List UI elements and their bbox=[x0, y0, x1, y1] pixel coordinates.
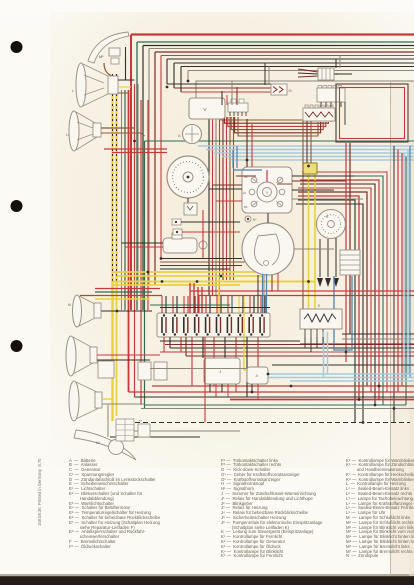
wire right v4 bbox=[405, 157, 407, 406]
wire fuse feed 19 bbox=[260, 296, 262, 313]
wire fuse out 7 bbox=[213, 337, 215, 386]
wire relay drop 5 bbox=[251, 384, 253, 392]
wire mid v brown3 bbox=[310, 121, 312, 163]
wire right corner 2 bbox=[298, 196, 359, 400]
wire cascade v8 bbox=[173, 63, 175, 88]
wire bottom black 1 bbox=[135, 396, 414, 398]
wire coil feed 1 bbox=[122, 242, 164, 244]
junction dot b3 bbox=[393, 407, 396, 410]
page fold line right bbox=[390, 82, 392, 575]
wire right v5 bbox=[345, 143, 347, 362]
headlight L2 bbox=[66, 111, 101, 151]
junction dot 10 bbox=[267, 373, 270, 376]
wire light blue h2 bbox=[206, 149, 414, 151]
wire lblue v heck2 bbox=[327, 332, 329, 374]
headlight L1 bbox=[72, 63, 118, 107]
junction dot 11 bbox=[307, 165, 310, 168]
wire red cluster f4 bbox=[201, 287, 203, 313]
wire fuse out 2 bbox=[169, 337, 171, 348]
fuse 9 bbox=[249, 314, 253, 335]
wire bundle yellow dash 2b bbox=[116, 74, 118, 315]
wire yellow h y3 bbox=[95, 298, 150, 300]
wire headlight1 stub 1 bbox=[118, 79, 135, 81]
wire coil feed 2 bbox=[125, 246, 163, 248]
horn M top bbox=[88, 32, 129, 63]
fuse 3 bbox=[184, 314, 188, 335]
wire gray lamp v bbox=[107, 404, 109, 437]
wire J conn drop 1 bbox=[335, 59, 337, 68]
junction dot 1 bbox=[133, 140, 136, 143]
bottom scan edge band bbox=[0, 576, 414, 585]
junction dot 5 bbox=[220, 275, 223, 278]
wire light blue h4 bbox=[222, 156, 414, 158]
wire mid h1 bbox=[160, 258, 242, 260]
junction dot b6 bbox=[345, 351, 348, 354]
wire harness U1 bbox=[221, 117, 331, 122]
junction dot 9 bbox=[160, 257, 163, 260]
wire top bus 6 bbox=[161, 55, 414, 57]
wire mid v brown1 bbox=[302, 121, 304, 309]
flasher box yellow bbox=[303, 163, 317, 174]
wire dashed ground run bbox=[135, 422, 410, 424]
wire switch drop bbox=[267, 213, 269, 223]
wire mid h3 bbox=[160, 265, 242, 267]
connector J top bbox=[298, 68, 352, 80]
wire switch feed l2 bbox=[209, 188, 242, 190]
box small left bbox=[98, 361, 114, 378]
wire green h y1 bbox=[95, 291, 152, 293]
wire J conn drop 2 bbox=[339, 56, 341, 69]
wire fuse feed 20 bbox=[264, 296, 266, 313]
wire red h y2 bbox=[80, 295, 162, 297]
lamp M mid bbox=[68, 295, 101, 327]
wire inner tier h1 bbox=[167, 83, 271, 85]
fuse 10 bbox=[260, 314, 264, 335]
svg-text:E: E bbox=[318, 304, 320, 308]
svg-text:M⁴: M⁴ bbox=[96, 441, 101, 445]
wire bottom lblue 3 bbox=[290, 380, 414, 382]
lamp rear 2 bbox=[69, 381, 102, 421]
wire light blue h5 bbox=[230, 159, 414, 161]
wire cascade v9 bbox=[180, 67, 182, 93]
horn M connector bbox=[104, 48, 120, 76]
wire switch feed l1 bbox=[212, 184, 242, 186]
junction dot 14 bbox=[187, 80, 190, 83]
svg-text:L: L bbox=[72, 89, 74, 93]
wire fuse out 1 bbox=[163, 337, 165, 352]
junction dot 7 bbox=[307, 280, 310, 283]
wire relay drop 4 bbox=[227, 384, 229, 397]
wire fuse out 10 bbox=[246, 337, 248, 397]
junction dot 12 bbox=[358, 398, 361, 401]
wire cascade v10 bbox=[187, 71, 189, 82]
wire bundle red 4 bbox=[147, 100, 149, 310]
vertical print note bbox=[37, 458, 42, 526]
wire cascade v4 bbox=[148, 49, 150, 285]
wire light blue h1 bbox=[198, 145, 414, 147]
relay J2 bbox=[247, 367, 268, 384]
wire fuse out 11 bbox=[257, 337, 259, 367]
wire top bus 11 bbox=[196, 81, 414, 98]
svg-text:G²: G² bbox=[289, 89, 293, 93]
wire switch dred in bbox=[236, 175, 256, 177]
distributor H bbox=[317, 210, 346, 239]
wire yellow v right2 bbox=[314, 173, 316, 309]
wire headlight brown 1 bbox=[101, 127, 135, 129]
wire cascade v7 bbox=[166, 59, 168, 84]
wire inner tier h4 bbox=[125, 47, 127, 80]
wire relay drop 3 bbox=[221, 384, 223, 392]
generator C bbox=[167, 156, 209, 198]
wire blk h307 bbox=[160, 307, 270, 309]
wire top bus 1 bbox=[131, 33, 414, 35]
wire headlight1 stub 3 bbox=[118, 92, 129, 94]
wire bundle yellow dash 1 bbox=[111, 74, 113, 300]
connector G2 bbox=[271, 84, 292, 95]
legend column 2 bbox=[221, 459, 322, 560]
wire bottom lblue 2 bbox=[267, 377, 414, 379]
fuse 8 bbox=[238, 314, 242, 335]
wire Ebox pin ext1 bbox=[304, 337, 306, 348]
wire cascade v6 bbox=[160, 56, 162, 259]
wire right h2 bbox=[342, 338, 414, 340]
wire top bus 5 bbox=[155, 51, 414, 53]
wire relay drop 1 bbox=[209, 384, 211, 392]
wire bundle red 1 bbox=[128, 90, 130, 392]
wire lblue v heck1 bbox=[323, 332, 325, 378]
junction dot b4 bbox=[290, 385, 293, 388]
wire fuse feed 5 bbox=[183, 296, 185, 313]
junction dot 3 bbox=[161, 280, 164, 283]
wire Ebox pin ext3 bbox=[316, 337, 318, 348]
punch hole 3 bbox=[11, 340, 23, 352]
wire dash drop 3 bbox=[215, 117, 217, 296]
wire mid h4 bbox=[160, 268, 230, 270]
junction dot 2 bbox=[147, 271, 150, 274]
wire fuse out 3 bbox=[180, 337, 182, 352]
wire under fusebox h2 bbox=[165, 344, 414, 346]
wire right h4 bbox=[170, 347, 414, 349]
wire fuse out 6 bbox=[202, 337, 204, 358]
wire right corner 4 bbox=[298, 192, 367, 386]
wire blk right h bbox=[272, 364, 414, 366]
wire bottom gray bbox=[141, 408, 414, 410]
wire Ebox pin ext2 bbox=[310, 337, 312, 352]
wire right corner 8 bbox=[300, 176, 383, 405]
wire headlight1 stub 2 bbox=[118, 86, 131, 88]
ground arrows bbox=[317, 278, 339, 287]
wire motor drop blue1 bbox=[262, 274, 264, 313]
wire fuse feed 12 bbox=[220, 296, 222, 313]
wire mblue v bbox=[236, 146, 238, 168]
wire harness U3 bbox=[228, 117, 326, 126]
wire top bus 8 bbox=[174, 62, 414, 64]
wire conn T2 up 4 bbox=[236, 87, 238, 105]
wire red v205 bbox=[204, 337, 206, 423]
svg-text:M: M bbox=[68, 303, 71, 307]
wire switch out h2 bbox=[292, 180, 346, 182]
wire right h6 bbox=[186, 355, 414, 357]
wire yellow h2 bbox=[117, 275, 263, 277]
wire right v3 bbox=[401, 153, 403, 386]
wire fuse feed 11 bbox=[216, 296, 218, 313]
fuse 4 bbox=[195, 314, 199, 335]
wire bottom black short bbox=[110, 436, 200, 438]
wire G2 feed 1 bbox=[264, 63, 266, 85]
wire fuse feed 2 bbox=[165, 296, 167, 313]
wire conn T2 up 3 bbox=[231, 81, 233, 105]
wire switch blue in bbox=[233, 169, 262, 171]
wire fuse out 8 bbox=[224, 337, 226, 358]
wire red v203 bbox=[202, 210, 204, 259]
wire right corner 1 bbox=[298, 200, 355, 423]
wire harness U6 bbox=[238, 117, 318, 136]
ignition coil bbox=[163, 233, 207, 253]
wire switch out h1 bbox=[292, 175, 355, 177]
wire motor drop 2 bbox=[263, 274, 265, 313]
wire red cluster f3 bbox=[197, 287, 199, 313]
wire right v7 bbox=[409, 146, 411, 378]
wire gen stub bbox=[187, 198, 189, 204]
wire yellow blinker bbox=[244, 296, 247, 370]
wire light blue h3 bbox=[214, 152, 414, 154]
punch hole 1 bbox=[11, 41, 23, 53]
wire right h1 bbox=[342, 333, 414, 335]
junction dot 15 bbox=[166, 86, 169, 89]
wire right corner 9 bbox=[302, 172, 387, 392]
junction dot b1 bbox=[362, 421, 365, 424]
wire yellow v219 bbox=[218, 276, 220, 313]
wire lamp stub r4 bbox=[102, 403, 145, 405]
wire mid v brown2 bbox=[306, 121, 308, 163]
legend column 3 bbox=[346, 459, 414, 560]
wire right v2 bbox=[397, 150, 399, 393]
wire fuse feed 10 bbox=[209, 296, 211, 313]
wire top bus 7 bbox=[167, 58, 414, 60]
junction dot 8 bbox=[116, 310, 119, 313]
wire yellow h3 bbox=[113, 281, 316, 283]
svg-text:J: J bbox=[219, 369, 221, 374]
wire right corner 7 bbox=[300, 180, 379, 400]
wire conn T2 up 1 bbox=[221, 91, 223, 105]
wire fuse feed 17 bbox=[249, 296, 251, 313]
fuse 5 bbox=[206, 314, 210, 335]
wiper motor bbox=[242, 223, 294, 275]
horn bottom bbox=[74, 430, 136, 460]
wire right v1 bbox=[393, 146, 395, 423]
wire bundle green bbox=[124, 90, 126, 310]
fuse 6 bbox=[217, 314, 221, 335]
punch hole 2 bbox=[11, 200, 23, 212]
wire right corner 5 bbox=[298, 188, 371, 392]
wire relay drop 6 bbox=[257, 384, 259, 400]
wire under fusebox h1 bbox=[160, 340, 300, 342]
wire fuse out 9 bbox=[235, 337, 237, 392]
wire yellow v2 bbox=[116, 285, 118, 416]
wire motor right bbox=[294, 248, 334, 250]
wire fuse feed 9 bbox=[205, 296, 207, 313]
wire red long h1 bbox=[190, 290, 414, 292]
wire fuse feed 7 bbox=[194, 296, 196, 313]
wire motor drop 3 bbox=[271, 275, 273, 291]
svg-text:LK: LK bbox=[243, 191, 246, 195]
fuse box body bbox=[157, 313, 270, 337]
wire fuse feed 8 bbox=[198, 296, 200, 313]
wire blue loop bbox=[334, 276, 352, 350]
heater box E bbox=[300, 304, 342, 337]
wire fuse feed 6 bbox=[187, 296, 189, 313]
wire harness U2 bbox=[224, 117, 328, 123]
wire dash drop 8 bbox=[233, 117, 235, 280]
relay H1 boxes bbox=[138, 362, 167, 380]
wire Ebox pin ext4 bbox=[322, 337, 324, 345]
svg-text:BK: BK bbox=[244, 205, 248, 209]
relay J bbox=[204, 358, 240, 384]
wire red cluster f2 bbox=[193, 283, 195, 313]
connector ladder bbox=[340, 250, 360, 275]
relay E top bbox=[317, 86, 345, 126]
wire bottom green bbox=[145, 404, 407, 406]
junction dot 6 bbox=[246, 159, 249, 162]
wire fuse feed 14 bbox=[231, 296, 233, 313]
wire top bus 10 bbox=[188, 70, 414, 72]
wire top bus 3 bbox=[143, 45, 414, 47]
wire harness U5 bbox=[235, 117, 321, 133]
wire fuse feed 13 bbox=[227, 296, 229, 313]
wire switch out h3 bbox=[292, 198, 363, 200]
junction dot 13 bbox=[378, 385, 381, 388]
wire bundle red 2 bbox=[134, 84, 136, 397]
lamp rear 1 bbox=[66, 336, 97, 376]
gauge G bbox=[178, 125, 202, 144]
svg-text:M⁵: M⁵ bbox=[99, 55, 104, 59]
svg-text:G: G bbox=[178, 134, 181, 138]
wire bottom red thick bbox=[230, 399, 414, 401]
wire fuse feed 16 bbox=[242, 296, 244, 313]
wire inner tier h2 bbox=[174, 87, 271, 89]
wire motor drop blue2 bbox=[266, 274, 268, 313]
wire top bus 4 bbox=[149, 48, 414, 50]
wire lblue corner v1 bbox=[403, 153, 405, 378]
wire right corner 6 bbox=[300, 184, 375, 405]
wire right h3 bbox=[300, 343, 414, 345]
wire bundle gray 2 bbox=[137, 84, 139, 284]
wire red long h2 bbox=[198, 295, 414, 297]
wire yellow h1 bbox=[113, 271, 259, 273]
wire bundle yellow dash 1b bbox=[112, 74, 114, 315]
junction dot b2 bbox=[374, 404, 377, 407]
wire cascade v5 bbox=[154, 52, 156, 284]
wire motor drop 4 bbox=[277, 273, 279, 291]
wire bundle gray bbox=[121, 90, 123, 310]
wire grn h305 bbox=[150, 304, 230, 306]
wire lblue corner v2 bbox=[407, 150, 409, 375]
wire headlight brown 2 bbox=[101, 133, 145, 136]
ignition switch D bbox=[242, 167, 292, 213]
wire switch feed red2 bbox=[251, 124, 253, 167]
wire black h lamp bbox=[98, 310, 152, 312]
fuse strip bbox=[303, 105, 335, 121]
wire relay drop 2 bbox=[215, 384, 217, 397]
wire bundle green 2 bbox=[144, 141, 146, 408]
connector T bottom bbox=[116, 419, 150, 441]
wire yellow v right1 bbox=[308, 173, 310, 312]
wire motor drop 1 bbox=[257, 275, 259, 313]
wire bottom red 1 bbox=[152, 385, 414, 387]
wire inner tier h3 bbox=[181, 91, 271, 93]
legend column 1 bbox=[69, 459, 160, 550]
wire lamp stub r3 bbox=[102, 398, 113, 400]
wire red gen h2 bbox=[112, 152, 167, 154]
wire fuse out 5 bbox=[191, 337, 193, 386]
wire loop rect inner bbox=[340, 88, 405, 139]
wire dash drop 5 bbox=[222, 117, 224, 280]
junction dot b5 bbox=[251, 391, 254, 394]
wire fuse feed 1 bbox=[161, 296, 163, 313]
wire bottom gray short bbox=[123, 430, 240, 432]
wire right h5 bbox=[160, 351, 414, 353]
wire fuse feed 15 bbox=[238, 296, 240, 313]
fuse 2 bbox=[173, 314, 177, 335]
wire dist drop 3 bbox=[335, 238, 337, 277]
wire conn T2 up 2 bbox=[226, 95, 228, 105]
wire red cluster f1 bbox=[189, 283, 191, 313]
wire dist drop 2 bbox=[327, 239, 329, 277]
wire switch feed l3 bbox=[216, 200, 242, 202]
dash connector T2 bbox=[228, 99, 248, 116]
wire dash drop 7 bbox=[229, 117, 231, 280]
wire bottom red 2 bbox=[129, 391, 414, 393]
wire red gen h1 bbox=[104, 148, 167, 150]
indicator K6 bbox=[245, 216, 257, 222]
wire fuse feed 4 bbox=[176, 296, 178, 313]
wire dash drop 2 bbox=[212, 117, 214, 296]
fuse 1 bbox=[162, 314, 166, 335]
wire green mid h bbox=[145, 140, 414, 142]
spark plug sym 1 bbox=[172, 219, 240, 225]
sensor box V2 bbox=[184, 203, 197, 215]
wire lamp stub r1 bbox=[97, 354, 160, 356]
wire right v6 bbox=[349, 143, 351, 334]
wire top bus 2 bbox=[137, 41, 414, 43]
wire mblue v2 bbox=[232, 150, 234, 168]
wire dash drop 1 bbox=[208, 117, 210, 296]
wire loop rect outer bbox=[336, 84, 408, 142]
wire lamp stub r2 bbox=[97, 359, 150, 361]
wire fuse feed 3 bbox=[172, 296, 174, 313]
wire yellow v main bbox=[111, 282, 113, 422]
wire yellow h4 bbox=[113, 284, 241, 286]
wire dash drop 4 bbox=[219, 117, 221, 296]
wire top bus 9 bbox=[181, 66, 414, 68]
junction dot 4 bbox=[196, 280, 199, 283]
wire harness U4 bbox=[231, 117, 323, 130]
wire cascade v2 bbox=[136, 42, 138, 310]
wire switch feed red bbox=[246, 119, 248, 167]
wire switch right bbox=[292, 189, 334, 191]
wire bottom lblue 1 bbox=[267, 373, 414, 375]
wire cascade v3 bbox=[142, 46, 144, 311]
wire right corner 3 bbox=[296, 204, 363, 423]
wire bundle red 3 bbox=[140, 100, 142, 405]
box V bbox=[189, 98, 225, 119]
wire G2 feed 2 bbox=[268, 67, 270, 86]
wire mid h2 bbox=[160, 261, 247, 263]
wire red h y1 bbox=[95, 288, 160, 290]
fuse 7 bbox=[227, 314, 231, 335]
wire fuse out 4 bbox=[185, 337, 187, 356]
wire cascade v1 bbox=[130, 35, 132, 311]
